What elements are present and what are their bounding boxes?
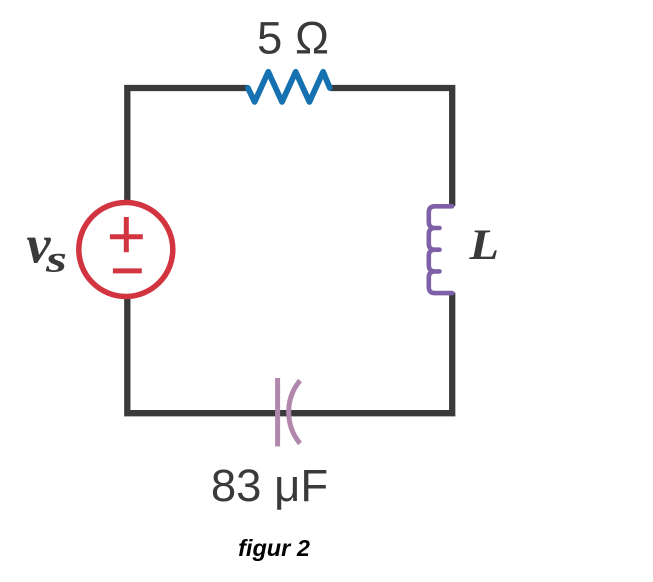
voltage source circle xyxy=(79,203,173,297)
resistor R zigzag xyxy=(248,72,330,102)
wire bottom: right vertical lower + bottom wire + left vertical lower xyxy=(127,293,452,414)
svg-text:5 Ω: 5 Ω xyxy=(257,13,329,64)
inductor L coil xyxy=(429,206,452,293)
voltage source plus sign xyxy=(110,217,143,252)
capacitor right plate (curved) xyxy=(289,381,300,444)
svg-text:L: L xyxy=(468,221,499,269)
capacitor left plate (straight) xyxy=(275,378,280,446)
svg-text:s: s xyxy=(45,239,67,281)
wire top-right: top wire right segment + right vertical upper xyxy=(330,88,452,206)
svg-text:figur 2: figur 2 xyxy=(238,535,310,561)
voltage source minus sign xyxy=(113,268,142,273)
wire top-left: left vertical upper + top wire left segment xyxy=(127,88,247,205)
svg-text:83 μF: 83 μF xyxy=(211,460,328,511)
